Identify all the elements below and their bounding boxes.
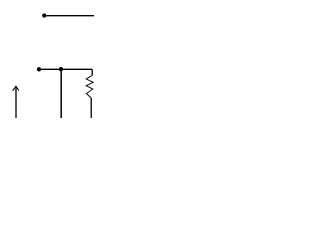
- wire bottom horizontal: [39, 68, 92, 70]
- wire resistor bottom lead to bottom edge: [90, 98, 92, 118]
- wire corner and resistor top lead: [91, 69, 93, 75]
- resistor R1 zigzag body: [86, 75, 93, 98]
- node junction dot bottom-left: [37, 67, 41, 71]
- wire vertical from middle junction to bottom edge: [60, 67, 62, 118]
- node junction dot top: [42, 13, 46, 17]
- node junction dot bottom-middle: [59, 67, 63, 71]
- current arrow shaft: [15, 86, 17, 118]
- current arrow head: [13, 86, 19, 90]
- wire top horizontal: [44, 15, 94, 17]
